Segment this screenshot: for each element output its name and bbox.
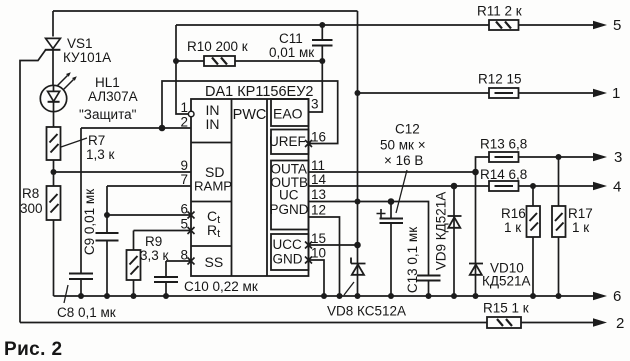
resistor R16 — [527, 206, 541, 237]
resistor R17 — [552, 206, 566, 237]
svg-text:UCC: UCC — [273, 237, 302, 252]
wire pin 14 OUTB — [309, 185, 490, 187]
wire VD9 vertical — [453, 186, 455, 296]
wire pin 15 UCC — [309, 244, 358, 246]
svg-text:КД521А: КД521А — [482, 274, 531, 289]
svg-text:4: 4 — [613, 179, 621, 196]
wire pin 6 Ct — [107, 214, 191, 216]
thyristor VS1 — [45, 38, 61, 49]
resistor R11 — [489, 20, 519, 30]
svg-text:3: 3 — [614, 149, 622, 166]
svg-text:R12 15: R12 15 — [478, 72, 522, 87]
wire HL1 to R7 — [53, 112, 55, 127]
wire supply vertical — [357, 11, 359, 296]
diode VD9 — [448, 216, 462, 228]
svg-text:VD8 КС512А: VD8 КС512А — [327, 304, 406, 319]
resistor R7 — [47, 127, 88, 160]
wire pin 9 to R7/R8 — [54, 171, 192, 173]
svg-text:IN: IN — [206, 116, 220, 132]
svg-text:1: 1 — [612, 85, 620, 102]
resistor R9 — [127, 250, 141, 280]
svg-text:1 к: 1 к — [504, 220, 521, 235]
resistor R15 — [487, 317, 521, 328]
svg-text:UC: UC — [279, 188, 299, 203]
wire pin 12 PGND — [309, 217, 340, 296]
capacitor C12 electrolytic — [377, 170, 408, 223]
LED HL1 — [40, 72, 77, 112]
pin 1 inversion circle — [188, 111, 194, 117]
svg-text:C8 0,1 мк: C8 0,1 мк — [57, 305, 116, 320]
svg-text:КУ101А: КУ101А — [63, 50, 111, 65]
svg-text:16: 16 — [311, 130, 326, 145]
svg-text:R10 200 к: R10 200 к — [187, 39, 248, 54]
wire R16 leads — [532, 186, 534, 296]
wire R14 to arrow 4 — [519, 185, 596, 187]
wire OUTA down through VD10 to bus — [475, 172, 477, 296]
svg-text:C10 0,22 мк: C10 0,22 мк — [184, 279, 258, 294]
resistor R10 — [204, 56, 235, 66]
resistor R14 — [489, 181, 519, 191]
svg-text:× 16 В: × 16 В — [384, 153, 423, 168]
svg-text:14: 14 — [311, 172, 327, 187]
wire pin 3 EAO — [309, 61, 323, 112]
wire R13 to arrow 3 — [519, 156, 596, 158]
wire pin 7 RAMP to C9 — [107, 186, 191, 233]
wire C8 stems — [80, 128, 82, 296]
svg-text:Рис. 2: Рис. 2 — [4, 339, 62, 360]
capacitor C11 — [312, 40, 333, 46]
svg-text:HL1: HL1 — [95, 75, 120, 90]
svg-text:6: 6 — [180, 202, 188, 217]
wire ground bus — [54, 295, 596, 297]
zener VD8 — [344, 258, 366, 296]
svg-text:9: 9 — [180, 158, 188, 173]
svg-text:R7: R7 — [88, 133, 105, 148]
svg-text:UREF: UREF — [269, 134, 306, 149]
wire R8 to bus — [53, 220, 55, 296]
svg-text:8: 8 — [180, 248, 188, 263]
svg-text:R11 2 к: R11 2 к — [477, 4, 522, 19]
svg-text:R13 6,8: R13 6,8 — [480, 137, 527, 152]
resistor R12 — [489, 88, 519, 98]
svg-text:5: 5 — [613, 17, 621, 34]
svg-text:GND: GND — [273, 252, 303, 267]
wire VS1 cathode to HL1 — [52, 50, 54, 86]
svg-text:R8: R8 — [22, 186, 39, 201]
wire R9 to bus — [133, 280, 135, 296]
wire R12 line — [358, 92, 596, 94]
svg-text:300: 300 — [20, 201, 43, 216]
svg-text:R14 6,8: R14 6,8 — [480, 167, 527, 182]
wire VS1 gate to bottom — [20, 50, 46, 323]
wire bottom line to R15 and output 2 — [20, 322, 595, 324]
svg-text:PGND: PGND — [270, 202, 309, 217]
svg-text:DA1 КР1156ЕУ2: DA1 КР1156ЕУ2 — [205, 84, 313, 100]
capacitor C10 — [154, 277, 178, 282]
wire pin 8 SS to C10 — [166, 261, 191, 277]
svg-text:1,3 к: 1,3 к — [86, 147, 115, 162]
svg-text:EAO: EAO — [273, 106, 303, 122]
svg-text:C11: C11 — [279, 31, 303, 46]
svg-text:1 к: 1 к — [572, 220, 589, 235]
wire pin 2 — [81, 127, 191, 129]
wire C10 to bus — [165, 282, 167, 296]
svg-text:C9 0,01 мк: C9 0,01 мк — [82, 189, 97, 255]
wire OUTA up to R13 — [476, 157, 490, 172]
svg-text:R9: R9 — [145, 234, 162, 249]
svg-text:R17: R17 — [568, 206, 593, 221]
wire C12 stems — [390, 202, 392, 297]
svg-text:2: 2 — [616, 315, 624, 332]
svg-text:R15 1 к: R15 1 к — [483, 301, 529, 316]
diode VD10 — [469, 264, 483, 275]
svg-text:"Защита": "Защита" — [79, 107, 137, 122]
wire feedback line to R11 — [176, 24, 595, 26]
svg-text:VS1: VS1 — [67, 36, 93, 51]
wire R10 leads — [176, 60, 322, 62]
wire top supply — [53, 10, 358, 12]
svg-text:6: 6 — [613, 288, 621, 305]
wire R17 top lead — [558, 157, 560, 206]
IC cell texts — [194, 102, 309, 270]
svg-text:5: 5 — [180, 217, 188, 232]
svg-text:13: 13 — [311, 187, 326, 202]
wire R17 bottom lead — [558, 237, 560, 296]
svg-text:RAMP: RAMP — [194, 179, 232, 194]
wire pin 5 Rt to R9 — [134, 231, 192, 251]
svg-text:PWC: PWC — [233, 107, 267, 123]
wire C9 to bus — [106, 241, 108, 297]
svg-text:15: 15 — [311, 231, 326, 246]
wire VS1 anode — [52, 11, 54, 37]
wire pin 13 UC to C13 — [309, 202, 429, 297]
svg-text:12: 12 — [311, 203, 326, 218]
svg-text:0,01 мк: 0,01 мк — [269, 45, 314, 60]
pin numbers — [180, 100, 188, 263]
output numbers — [612, 17, 624, 332]
resistor R8 — [47, 186, 61, 220]
svg-text:3: 3 — [311, 97, 319, 112]
svg-text:SS: SS — [205, 254, 224, 270]
svg-text:50 мк ×: 50 мк × — [380, 138, 426, 153]
svg-text:C12: C12 — [395, 122, 420, 137]
capacitor C8 — [64, 274, 93, 304]
svg-text:R16: R16 — [501, 206, 526, 221]
svg-text:VD9 КД521А: VD9 КД521А — [434, 192, 449, 271]
svg-text:11: 11 — [311, 158, 325, 173]
wire C11 stems — [321, 25, 323, 61]
wire feedback vertical to pin 1 — [176, 25, 188, 114]
wire pin 10 GND — [309, 260, 325, 296]
wire pin 11 OUTA — [309, 171, 476, 173]
capacitor C13 — [417, 276, 441, 281]
wire R7 to R8 — [53, 160, 55, 186]
pin X markers — [188, 140, 313, 265]
IC DA1 КР1156ЕУ2 outer box — [191, 99, 309, 276]
resistor R13 — [489, 152, 519, 162]
svg-text:2: 2 — [180, 115, 188, 130]
svg-text:1: 1 — [180, 100, 188, 115]
wire UREF pin16 to pin2 — [162, 81, 338, 144]
capacitor C9 — [96, 233, 119, 241]
output arrows — [593, 21, 607, 327]
svg-text:3,3 к: 3,3 к — [140, 248, 169, 263]
svg-text:7: 7 — [180, 172, 188, 187]
svg-text:АЛ307А: АЛ307А — [88, 89, 138, 104]
svg-text:C13 0,1 мк: C13 0,1 мк — [405, 227, 420, 293]
svg-text:10: 10 — [311, 246, 326, 261]
